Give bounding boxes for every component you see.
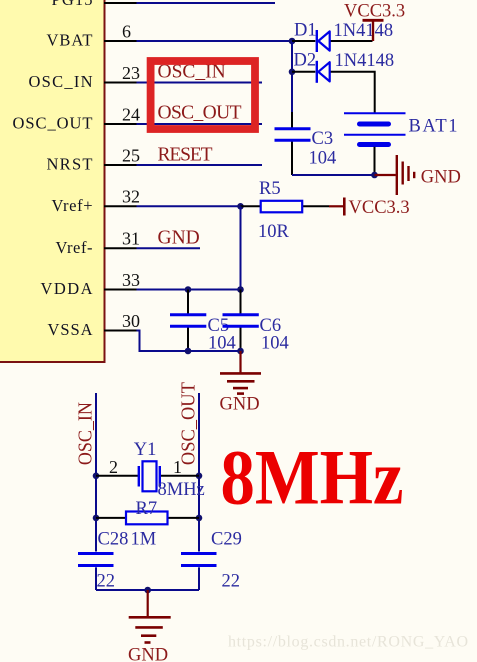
svg-text:22: 22 — [222, 572, 241, 592]
node bottom GND junction dot — [144, 587, 151, 594]
net label VCC3.3 (top) — [344, 1, 405, 21]
node VDDA/C5 junction dot — [185, 286, 192, 293]
value 104 (C6) — [261, 333, 289, 353]
label C28 — [98, 530, 129, 550]
wire OSC_IN net — [137, 82, 263, 84]
svg-text:OSC_IN: OSC_IN — [29, 72, 93, 91]
svg-text:GND: GND — [158, 228, 200, 249]
wire bottom of C3 to battery node — [292, 174, 375, 176]
svg-text:https://blog.csdn.net/RONG_YAO: https://blog.csdn.net/RONG_YAO — [228, 633, 468, 650]
svg-text:C28: C28 — [98, 530, 129, 550]
value 104 (C5) — [208, 333, 236, 353]
ground GND (below C6) — [220, 351, 261, 394]
red highlight rectangle — [151, 61, 255, 129]
pin VDDA name — [41, 279, 93, 298]
svg-text:VSSA: VSSA — [48, 320, 93, 339]
node crystal left junction dot — [93, 473, 100, 480]
pin stub VBAT — [104, 40, 137, 42]
svg-text:VCC3.3: VCC3.3 — [349, 198, 410, 218]
node Vref+/R5 junction dot — [237, 203, 244, 210]
value 1N4148 (D1) — [334, 21, 394, 41]
svg-text:VBAT: VBAT — [47, 31, 93, 50]
pin 30 number — [122, 311, 140, 331]
svg-text:RESET: RESET — [158, 144, 213, 165]
svg-text:25: 25 — [122, 145, 140, 165]
pin 25 number — [122, 145, 140, 165]
svg-text:8MHz: 8MHz — [221, 434, 404, 521]
svg-text:31: 31 — [122, 229, 140, 249]
svg-text:22: 22 — [97, 572, 116, 592]
pin 6 number — [122, 21, 131, 41]
pin stub OSC_IN — [104, 82, 137, 84]
node crystal right junction dot — [196, 473, 203, 480]
svg-text:GND: GND — [128, 646, 168, 662]
wire C5 vertical pins — [187, 290, 189, 352]
node D2 junction dot — [289, 69, 296, 76]
label D1 — [294, 21, 317, 41]
svg-text:C29: C29 — [211, 530, 242, 550]
svg-text:8MHz: 8MHz — [158, 480, 205, 500]
wire NRST RESET net — [137, 164, 263, 166]
capacitor C3 — [275, 129, 311, 140]
pin 32 number — [122, 187, 140, 207]
net label GND (crystal section) — [128, 646, 168, 662]
power VCC3.3 bar (right of R5) — [329, 198, 344, 216]
resistor R5 — [261, 201, 303, 213]
wire bottom crystal ground bus — [96, 589, 199, 591]
crystal Y1 leads — [96, 475, 199, 477]
crystal Y1 — [139, 461, 160, 491]
svg-text:30: 30 — [122, 311, 140, 331]
svg-text:23: 23 — [122, 63, 140, 83]
label D2 — [294, 51, 317, 71]
svg-text:6: 6 — [122, 21, 131, 41]
value 1M (R7) — [131, 530, 157, 550]
pin VBAT name — [47, 31, 93, 50]
node C6 bottom junction dot — [237, 348, 244, 355]
capacitor C29 — [181, 554, 217, 566]
ground GND (crystal section) — [129, 590, 171, 643]
value 104 (C3) — [309, 148, 337, 168]
svg-text:C3: C3 — [312, 129, 334, 149]
pin NRST name — [47, 155, 93, 174]
svg-text:1M: 1M — [131, 530, 157, 550]
wire C6 vertical pins — [240, 290, 242, 352]
power VCC3.3 symbol (top) — [363, 20, 384, 41]
wire vertical rail x=292 (VBAT node to C3/bottom) — [291, 41, 293, 113]
wire VSSA down-step — [137, 331, 241, 352]
svg-text:10R: 10R — [258, 222, 290, 242]
diode D2 leads — [292, 72, 375, 113]
node A junction dot (VBAT/D1) — [289, 38, 296, 45]
label C5 — [208, 316, 230, 336]
wire vertical rail x=240.5 (R5 node down to VSSA wire) — [240, 206, 242, 314]
pin 23 number — [122, 63, 140, 83]
svg-text:2: 2 — [109, 457, 118, 477]
wire VDDA row — [137, 289, 241, 291]
pin Vref- name — [56, 238, 93, 257]
value 22 (C28) — [97, 572, 116, 592]
svg-text:1N4148: 1N4148 — [335, 51, 395, 71]
svg-text:104: 104 — [309, 148, 337, 168]
diode D1 — [317, 30, 330, 52]
label C3 — [312, 129, 334, 149]
pin stub Vref+ — [104, 205, 137, 207]
label Y1 — [134, 440, 157, 460]
net label OSC_OUT — [158, 102, 242, 123]
label C6 — [260, 316, 282, 336]
annotation 8MHz big red — [221, 434, 404, 521]
label C29 — [211, 530, 242, 550]
svg-text:1N4148: 1N4148 — [334, 21, 394, 41]
svg-text:104: 104 — [208, 333, 236, 353]
svg-text:1: 1 — [173, 457, 182, 477]
wire OSC_IN rail (crystal section) — [95, 393, 97, 590]
node C5 bottom junction dot — [185, 348, 192, 355]
pin 31 number — [122, 229, 140, 249]
wire PG15 net — [137, 2, 276, 4]
IC U? yellow body (partial, clipped left/top) — [0, 0, 105, 362]
pin stub PG15 — [104, 2, 137, 4]
pin OSC_IN name — [29, 72, 93, 91]
svg-text:R5: R5 — [259, 179, 281, 199]
pin stub Vref- — [104, 247, 137, 249]
ground GND (battery, sideways) — [375, 155, 415, 195]
net label GND (Vref-) — [158, 228, 200, 249]
svg-text:NRST: NRST — [47, 155, 93, 174]
svg-text:OSC_OUT: OSC_OUT — [13, 114, 93, 133]
svg-text:Vref+: Vref+ — [52, 196, 93, 215]
svg-text:33: 33 — [122, 270, 140, 290]
pin number 1 (Y1 right) — [173, 457, 182, 477]
pin number 2 (Y1 left) — [109, 457, 118, 477]
value 22 (C29) — [222, 572, 241, 592]
pin 33 number — [122, 270, 140, 290]
pin stub OSC_OUT — [104, 123, 137, 125]
node R7 left junction dot — [93, 515, 100, 522]
wire C3 pin segments (black) — [291, 112, 293, 175]
svg-text:R7: R7 — [136, 499, 158, 519]
pin Vref+ name — [52, 196, 93, 215]
pin VSSA name — [48, 320, 93, 339]
net label GND (below C6) — [220, 395, 260, 415]
resistor R7 — [126, 512, 168, 525]
value 8MHz (Y1) — [158, 480, 205, 500]
label R5 — [259, 179, 281, 199]
capacitor C5 — [170, 315, 206, 327]
wire Vref+ to R5 node — [137, 205, 241, 207]
watermark — [228, 633, 468, 650]
svg-text:104: 104 — [261, 333, 289, 353]
capacitor C6 — [223, 315, 259, 327]
svg-text:GND: GND — [421, 168, 461, 188]
pin stub NRST — [104, 164, 137, 166]
svg-text:OSC_IN: OSC_IN — [76, 402, 97, 465]
net label OSC_OUT (rotated) — [179, 382, 200, 465]
diode D1 leads — [292, 40, 373, 42]
value 10R — [258, 222, 290, 242]
svg-text:OSC_OUT: OSC_OUT — [179, 382, 200, 465]
node battery/GND junction dot — [371, 172, 378, 179]
svg-text:24: 24 — [122, 104, 140, 124]
svg-text:Y1: Y1 — [134, 440, 157, 460]
net label GND (battery) — [421, 168, 461, 188]
net label OSC_IN (rotated) — [76, 402, 97, 465]
node R7 right junction dot — [196, 515, 203, 522]
svg-text:VDDA: VDDA — [41, 279, 93, 298]
diode D2 — [317, 61, 330, 83]
battery BAT1 — [344, 113, 406, 175]
net label RESET — [158, 144, 213, 165]
resistor R7 leads — [96, 517, 199, 519]
svg-text:GND: GND — [220, 395, 260, 415]
pin 24 number — [122, 104, 140, 124]
pin OSC_OUT name — [13, 114, 93, 133]
svg-text:32: 32 — [122, 187, 140, 207]
net label VCC3.3 (right of R5) — [349, 198, 410, 218]
label BAT1 — [409, 116, 458, 136]
svg-text:D1: D1 — [294, 21, 317, 41]
pin stub VSSA — [104, 330, 137, 332]
wire OSC_OUT net — [137, 123, 263, 125]
pin stub VDDA — [104, 289, 137, 291]
svg-text:Vref-: Vref- — [56, 238, 93, 257]
wire OSC_OUT rail (crystal section) — [198, 393, 200, 590]
svg-text:OSC_OUT: OSC_OUT — [158, 102, 242, 123]
value 1N4148 (D2) — [335, 51, 395, 71]
svg-text:BAT1: BAT1 — [409, 116, 458, 136]
capacitor C28 — [78, 554, 114, 566]
wire VBAT to node A — [137, 40, 293, 42]
label R7 — [136, 499, 158, 519]
svg-text:VCC3.3: VCC3.3 — [344, 1, 405, 21]
node VDDA/C6 junction dot — [237, 286, 244, 293]
svg-text:D2: D2 — [294, 51, 317, 71]
pin PG15 name — [52, 0, 93, 9]
resistor R5 leads — [241, 205, 330, 207]
wire Vref- GND net — [137, 247, 201, 249]
net label OSC_IN — [158, 61, 226, 82]
svg-text:PG15: PG15 — [52, 0, 93, 9]
